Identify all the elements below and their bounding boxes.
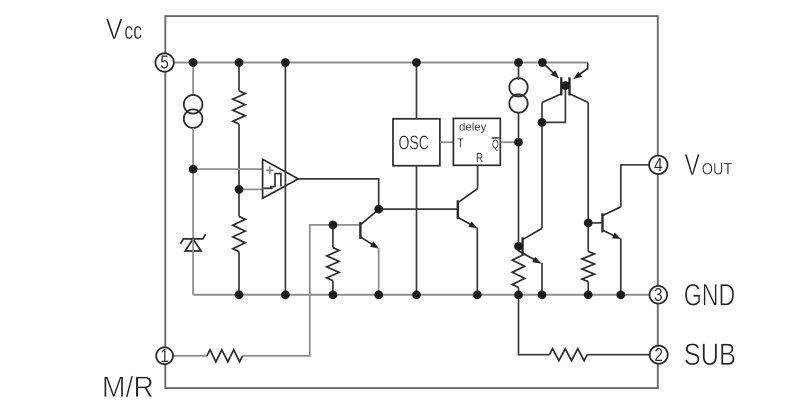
wire mirror common base [561, 85, 569, 87]
Vcc rail wire [173, 62, 587, 64]
node junction (239,62) [235, 58, 244, 67]
wire mirror right collector down [587, 103, 589, 223]
wire GND rail down to SUB resistor [519, 295, 550, 355]
wire R2 to GND rail [238, 252, 240, 295]
wire current source to node A [192, 128, 194, 169]
wire pin1 to resistor R6 [173, 355, 207, 357]
svg-text:4: 4 [654, 154, 663, 175]
wire Q3 emitter to GND rail [541, 263, 543, 295]
resistor R5 [587, 223, 589, 252]
svg-text:R: R [476, 150, 483, 165]
wire Q6 emitter to GND rail [620, 238, 622, 294]
svg-text:SUB: SUB [684, 336, 736, 372]
wire OSC to delay block [440, 141, 454, 143]
zener diode D1 [180, 234, 206, 251]
node junction (542,122) [538, 118, 547, 127]
transistor Q1 [360, 209, 379, 248]
node junction (416,62) [412, 58, 421, 67]
node junction (193,62) [189, 58, 198, 67]
current source I2 [509, 78, 527, 96]
node junction (379,295) [374, 290, 383, 299]
wire zener to GND rail [192, 239, 194, 295]
wire R7 to pin 2 [587, 354, 650, 356]
transistor Q2 [458, 189, 478, 229]
pin 2 [650, 346, 668, 364]
resistor R2 [233, 216, 245, 251]
wire R6 to riser [243, 225, 333, 356]
wire comparator output [298, 179, 378, 209]
svg-text:cc: cc [124, 18, 142, 45]
OSC block U2 [393, 119, 440, 166]
svg-text:OUT: OUT [702, 159, 733, 178]
node junction (477,295) [473, 290, 482, 299]
wire Q1 collector node to Q2 base [379, 208, 458, 210]
wire Vcc to resistor R1 [238, 63, 240, 91]
wire Q6 collector to pin 4 [621, 165, 650, 207]
svg-text:3: 3 [654, 284, 663, 305]
wire Vcc to OSC [416, 63, 418, 119]
wire node B to comparator - input [239, 188, 263, 190]
svg-text:T: T [457, 135, 463, 150]
svg-text:M/R: M/R [102, 371, 154, 404]
wire node A to comparator + input [193, 168, 263, 170]
node junction (193,169) [189, 165, 198, 174]
wire OSC to GND rail [416, 166, 418, 295]
current source I1 [184, 95, 203, 114]
pin 5 [155, 53, 173, 71]
node junction (333,295) [329, 290, 338, 299]
node junction (416,295) [412, 290, 421, 299]
wire node D to Q3 base node [518, 142, 520, 246]
wire node B to resistor R2 [238, 189, 240, 216]
IC outline border [165, 16, 658, 388]
wire base tie to left collector [542, 86, 565, 123]
wire node A to zener [192, 169, 194, 239]
transistor Q5 PNP mirror right [570, 63, 589, 103]
node junction (285,62) [281, 58, 290, 67]
node junction (588,295) [584, 290, 593, 299]
wire Q2 emitter to GND rail [476, 227, 478, 294]
svg-text:OSC: OSC [399, 132, 429, 154]
node junction (518,142) [514, 138, 523, 147]
svg-text:5: 5 [160, 52, 169, 73]
node junction (565,86) [561, 81, 570, 90]
node junction (285,295) [281, 290, 290, 299]
resistor R6 [207, 350, 243, 362]
wire R1 to node B [238, 124, 240, 189]
node junction (542,295) [538, 290, 547, 299]
node junction (518,62) [514, 58, 523, 67]
wire Qbar output to node D [500, 141, 518, 143]
svg-text:deley: deley [459, 122, 487, 134]
wire R input down [477, 165, 479, 188]
wire Vcc to GND bias line [284, 63, 286, 295]
svg-text:V: V [106, 13, 123, 46]
pin 4 [649, 156, 667, 174]
wire node C to Q1 base [333, 224, 360, 226]
wire Vcc to current source I2 [518, 63, 520, 81]
GND rail wire [193, 294, 650, 296]
wire Vcc to current source I1 [192, 63, 194, 96]
op-amp comparator U1 [263, 159, 299, 198]
node junction (239,295) [235, 290, 244, 299]
transistor Q6 output [588, 207, 621, 239]
transistor Q3 [519, 228, 543, 263]
pin 3 [650, 286, 668, 304]
resistor R4 [518, 246, 520, 251]
node junction (542,62) [538, 58, 547, 67]
svg-text:1: 1 [160, 345, 169, 366]
node junction (239,189) [235, 185, 244, 194]
wire Q1 emitter to GND rail [378, 248, 380, 295]
resistor R7 [550, 349, 588, 361]
svg-text:GND: GND [684, 276, 736, 312]
transistor Q4 PNP mirror left [542, 63, 561, 103]
delay block U3 [453, 118, 500, 165]
node junction (518,295) [514, 290, 523, 299]
svg-text:Q: Q [492, 137, 499, 152]
svg-text:2: 2 [654, 344, 663, 365]
pin 1 [156, 347, 173, 364]
node junction (518,246) [514, 242, 523, 251]
svg-text:V: V [685, 147, 701, 182]
resistor R1 [233, 91, 245, 124]
wire Q3 collector up to mirror [541, 103, 543, 229]
node junction (588,223) [584, 219, 593, 228]
node junction (333,225) [329, 221, 338, 230]
wire I2 to node D [518, 112, 520, 142]
node junction (621,295) [616, 290, 625, 299]
node junction (379,209) [374, 205, 383, 214]
resistor R3 [332, 225, 334, 248]
